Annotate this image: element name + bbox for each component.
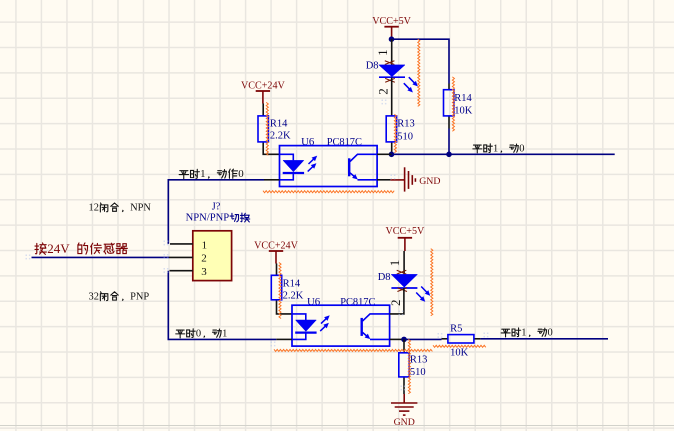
svg-text:NPN/PNP: NPN/PNP: [186, 213, 230, 224]
compile mask dots: [382, 100, 387, 105]
U6-bottom phototransistor emitter with arrow: [363, 332, 369, 337]
U6-bottom internal LED cathode bar: [295, 332, 316, 334]
op-amp U6-bottom optocoupler PC817C body: [292, 305, 390, 346]
power port VCC+24V bar: [269, 250, 283, 252]
resistor R14 10K pins (top right): [448, 84, 450, 90]
diode D8 anode pin (bottom): [403, 251, 405, 274]
svg-text:R5: R5: [450, 323, 462, 334]
svg-text:1: 1: [493, 143, 498, 154]
U6-top phototransistor collector: [350, 154, 377, 161]
resistor R14 2.2K pins (top): [262, 104, 264, 116]
LED D8 triangle (bottom): [391, 274, 417, 287]
junction: emitter / R13 / R5 node (bottom): [401, 337, 407, 343]
svg-text:2: 2: [376, 88, 391, 95]
svg-text:1: 1: [387, 260, 402, 267]
resistor R14 2.2K (top) body: [258, 116, 268, 142]
ground GND bars (bottom): [391, 402, 417, 404]
error marker zigzag under U6 (bottom): [274, 349, 432, 351]
net label 平时1，动0 (bottom right): [501, 329, 510, 337]
power port VCC+24V bar: [256, 90, 270, 92]
junction: R13 / output net (top): [389, 152, 395, 158]
svg-text:R14: R14: [454, 93, 472, 104]
svg-text:0: 0: [519, 143, 524, 154]
svg-text:0: 0: [238, 168, 244, 180]
resistor R13 510 pins (bottom): [403, 339, 405, 352]
LED D8 cathode bar (bottom): [391, 287, 417, 289]
error marker zigzag under U6 (top): [263, 191, 394, 193]
pin: U6 top cathode (left bottom) pin (top): [264, 179, 280, 181]
wire: VCC+5V branch to R14 10K (top): [392, 39, 450, 83]
error marker zigzag along R14 10K (top): [452, 77, 454, 131]
power port VCC+24V lead: [275, 251, 277, 264]
ground GND sideways bars (top): [404, 167, 406, 191]
U6-top internal LED cathode bar: [283, 172, 304, 174]
resistor R14 10K (top right) body: [444, 90, 454, 116]
svg-text:12: 12: [89, 203, 99, 214]
connector J? body: [193, 231, 232, 281]
LED D8 emission arrows (top): [409, 77, 416, 84]
no-ERC cross at D8 cathode (bottom): [397, 288, 407, 292]
LED D8 cathode bar (top): [379, 76, 405, 78]
U6-bottom internal LED anode lead: [292, 314, 306, 320]
junction: R14 10K / output net (top): [446, 152, 452, 158]
U6-top phototransistor base bar: [348, 158, 350, 176]
U6-bottom phototransistor base bar: [361, 318, 363, 336]
svg-text:D8: D8: [366, 60, 379, 71]
svg-text:10K: 10K: [454, 106, 473, 117]
svg-text:R14: R14: [283, 278, 301, 289]
svg-text:U6: U6: [307, 296, 321, 308]
svg-text:VCC+24V: VCC+24V: [254, 241, 299, 252]
LED D8 triangle (top): [379, 65, 405, 77]
wire: R5 to output net 平时1，动0 (bottom): [480, 338, 608, 340]
power port VCC+5V lead: [404, 238, 406, 251]
resistor R14 2.2K (bottom) body: [271, 275, 281, 300]
svg-text:1: 1: [202, 239, 208, 251]
no-ERC cross at D8 anode (top): [385, 61, 395, 65]
power port VCC+5V lead: [391, 27, 393, 39]
svg-text:1: 1: [375, 49, 390, 56]
U6-bottom internal LED triangle: [296, 320, 317, 331]
sheet bottom border: [0, 425, 674, 426]
no-ERC cross at D8 anode (bottom): [397, 270, 407, 274]
svg-text:J?: J?: [212, 202, 221, 213]
svg-text:VCC+24V: VCC+24V: [241, 81, 286, 92]
wire: J? pin 3 down to bottom net: [168, 271, 276, 340]
resistor R14 2.2K pins (bottom): [276, 264, 278, 276]
svg-text:PC817C: PC817C: [340, 297, 375, 308]
resistor R5 pins: [442, 338, 448, 340]
net label 接24V 的传感器: [35, 243, 46, 254]
svg-text:0: 0: [548, 328, 553, 339]
resistor R13 510 pins (top): [391, 142, 393, 154]
svg-text:PNP: PNP: [130, 292, 149, 303]
junction at VCC+5V node (top): [389, 36, 395, 42]
wire: D8 cathode to U6 collector (bottom): [390, 288, 404, 314]
svg-text:R14: R14: [270, 118, 288, 129]
svg-text:VCC+5V: VCC+5V: [386, 226, 425, 237]
svg-text:NPN: NPN: [130, 203, 151, 214]
power port VCC+5V bar: [384, 26, 398, 28]
wire: output net - 平时1，动0 (top): [392, 153, 615, 155]
svg-text:0: 0: [196, 328, 201, 339]
svg-text:10K: 10K: [450, 348, 469, 359]
U6-bottom internal LED cathode lead: [292, 333, 306, 340]
resistor R5 10K body: [448, 335, 474, 343]
wire: R14 10K bottom to output net (top): [448, 129, 450, 155]
svg-text:32: 32: [89, 292, 99, 303]
power port VCC+5V bar: [398, 237, 412, 239]
error marker zigzag along R14 2.2K (top): [266, 102, 268, 155]
svg-text:1: 1: [521, 328, 526, 339]
connector J? pin 1: [170, 243, 193, 245]
LED D8 emission arrows (bottom): [421, 287, 428, 294]
connector J? pin 2: [169, 256, 193, 258]
U6-bottom phototransistor collector: [363, 314, 390, 321]
net label 平时0，动1: [176, 330, 185, 338]
svg-text:R13: R13: [397, 119, 415, 130]
net label 平时1，动作0: [179, 171, 188, 179]
power port VCC+24V lead: [262, 91, 264, 104]
svg-text:R13: R13: [410, 354, 428, 365]
error marker zigzag right of D8 (bottom): [431, 249, 433, 316]
wire: U6 cathode to J? pin1 (left vertical): [168, 180, 264, 244]
resistor R13 510 (bottom) body: [399, 353, 409, 377]
svg-text:24V: 24V: [47, 241, 76, 256]
error marker zigzag along R13 (bottom): [408, 339, 410, 393]
resistor R13 510 (top) body: [386, 116, 396, 142]
pin: U6 collector pin to junction (top): [377, 153, 391, 155]
wire: junction to R5 (bottom): [404, 338, 442, 340]
svg-text:2.2K: 2.2K: [283, 291, 304, 302]
U6-bottom light emission arrows: [321, 317, 328, 323]
diode D8 cathode pin to R13 (top): [391, 78, 393, 116]
svg-text:1: 1: [222, 328, 227, 339]
no-ERC cross at D8 cathode (top): [385, 78, 395, 82]
error marker zigzag under R5: [433, 345, 486, 347]
svg-text:PC817C: PC817C: [327, 137, 362, 148]
pin: U6 emitter pin to junction (bottom): [390, 338, 404, 340]
connector J? pin 3: [170, 270, 193, 272]
error marker zigzag along R13 (top): [394, 114, 396, 152]
wire: sensor input to J? pin 2: [32, 256, 170, 258]
error marker zigzag right of D8 (top): [418, 39, 420, 106]
svg-text:D8: D8: [378, 272, 391, 283]
svg-text:1: 1: [200, 168, 205, 180]
U6-top light emission arrows: [309, 158, 316, 164]
pin: U6 bottom cathode pin (bottom-left): [276, 338, 292, 340]
svg-text:GND: GND: [419, 176, 440, 187]
svg-text:3: 3: [201, 266, 207, 278]
pin: U6 emitter pin to GND (top): [377, 179, 390, 181]
U6-top internal LED anode lead: [280, 154, 294, 160]
svg-text:2.2K: 2.2K: [270, 131, 291, 142]
svg-text:2: 2: [388, 300, 403, 307]
ground GND sideways symbol (top): lead: [390, 179, 404, 181]
op-amp U6-top optocoupler PC817C body: [280, 146, 378, 187]
ground GND symbol lead (bottom): [403, 394, 405, 403]
net label 平时1，动0 (top right): [473, 145, 482, 153]
svg-text:510: 510: [410, 367, 426, 378]
svg-text:VCC+5V: VCC+5V: [372, 16, 411, 27]
U6-top internal LED triangle: [283, 160, 304, 171]
diode D8 anode pin (top): [391, 39, 393, 65]
U6-top internal LED cathode lead: [280, 173, 294, 180]
svg-text:GND: GND: [394, 417, 415, 428]
svg-text:2: 2: [201, 253, 207, 265]
U6-top phototransistor emitter with arrow: [350, 173, 356, 178]
error marker zigzag along R14 2.2K (bottom): [279, 263, 281, 319]
svg-text:510: 510: [397, 132, 413, 143]
